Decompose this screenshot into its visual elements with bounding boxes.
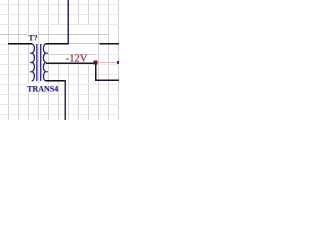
part value label TRANS4 background box [27, 84, 59, 93]
wire: vertical segment to top edge [68, 0, 70, 45]
transformer primary winding (left) [32, 44, 35, 81]
svg-text:TRANS4: TRANS4 [27, 84, 58, 93]
net/power label -12V [66, 53, 88, 64]
wire (dimmed segment) from junction node to right terminal [97, 62, 117, 63]
grid line segment y=54 [47, 54, 97, 55]
transformer secondary winding (right) [43, 44, 46, 81]
terminal: net endpoint square at right edge [117, 61, 120, 64]
darker grid line y=34 [0, 34, 108, 35]
wire: bottom segment to right edge [95, 80, 119, 82]
net label -12V background box [50, 35, 97, 63]
svg-text:-12V: -12V [66, 53, 88, 64]
wire: secondary center tap to junction node [46, 63, 94, 65]
wire: top right segment to right edge [99, 43, 119, 45]
background [0, 0, 119, 120]
refdes T? label background box [27, 33, 38, 42]
refdes label T? [28, 34, 37, 43]
grid vertical lines [8, 0, 119, 120]
transformer core line 2 [40, 44, 42, 81]
wire: primary winding top pin of T? to left [8, 43, 32, 45]
wire: vertical segment to bottom edge [64, 80, 66, 120]
wire: vertical segment below junction node [95, 64, 97, 80]
wire: secondary winding bottom pin to corner [46, 80, 66, 82]
grid horizontal lines [0, 4, 119, 115]
part value label TRANS4 [27, 84, 58, 93]
wire (dimmed segment) from corner node to right edge net [69, 43, 99, 44]
svg-text:T?: T? [28, 34, 37, 43]
transformer T? (TRANS4) [32, 44, 46, 81]
node: wire junction square [94, 61, 98, 65]
wire: secondary winding top pin of T? to corner [46, 43, 69, 45]
winding junction nubs [30, 52, 48, 72]
transformer core line 1 [36, 44, 38, 81]
